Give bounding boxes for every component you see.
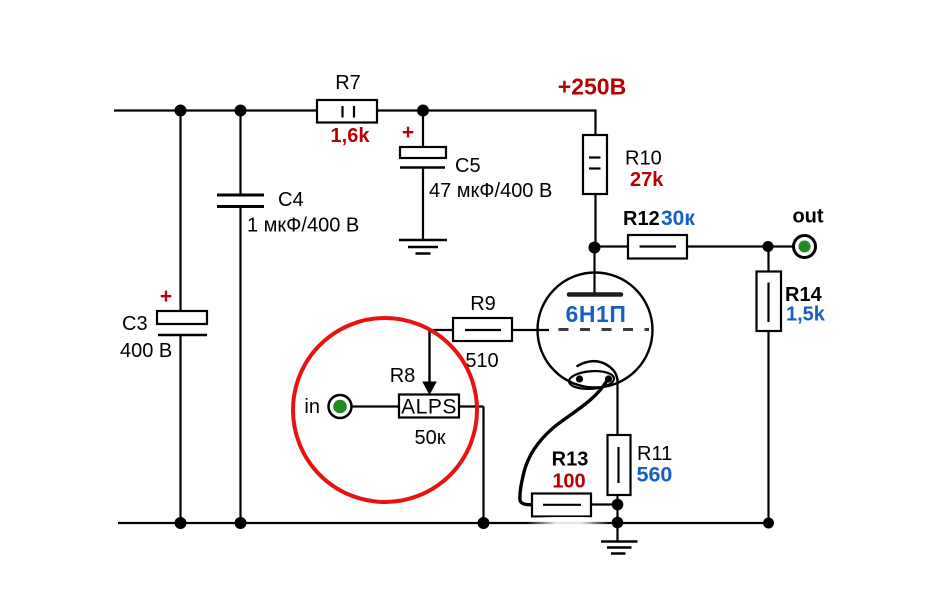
node junction dot C3 top [175,105,187,117]
svg-text:R13: R13 [552,449,589,471]
node out junction [763,241,774,252]
tube grid (dashed) [559,328,650,331]
wire C4 lower [239,207,241,524]
svg-text:510: 510 [465,350,498,372]
wiper arrowhead [422,382,437,396]
tube label 6Н1П [565,301,626,327]
wire top rail right segment [377,109,597,111]
wire bottom rail [118,522,771,524]
resistor R10 [583,135,664,194]
resistor R13 [532,449,591,517]
wire wiper arm [428,330,430,383]
node junction dot C4 bottom [235,517,247,529]
wire R10 top [594,111,596,136]
wire R12 left [595,245,629,247]
wire R9 left [430,329,454,331]
tube pin dot left [576,375,583,382]
svg-text:C3: C3 [122,313,148,335]
wire R14 bottom [767,331,769,523]
ground main [601,542,638,554]
svg-text:out: out [792,206,823,228]
net +250В [558,74,626,100]
node R14 ground junction [763,518,774,529]
tube pin dot right [605,375,612,382]
wire to out terminal [768,245,794,247]
wire R9 right [512,329,549,331]
svg-text:in: in [304,396,320,418]
node ALPS ground junction [478,517,490,529]
resistor R11 [608,435,673,495]
svg-text:+: + [160,285,172,308]
wire R10 bottom [594,194,596,248]
svg-text:R7: R7 [335,72,361,94]
svg-text:+250В: +250В [558,74,626,100]
svg-text:ALPS: ALPS [401,396,457,419]
resistor R9 [453,293,512,372]
terminal out [792,206,823,258]
wire R11 top [616,378,618,435]
svg-text:47 мкФ/400 В: 47 мкФ/400 В [429,180,552,202]
potentiometer R8 ALPS [390,365,459,449]
wire R11 bottom [616,495,618,505]
node anode junction [589,242,601,254]
highlight circle (red) [293,318,477,502]
whiteout smudge on bottom rail [526,517,611,528]
tube cathode loop [568,361,617,390]
wire C4 upper [239,111,241,196]
svg-text:R12: R12 [623,208,660,230]
wire C5 upper [422,111,424,148]
svg-text:6Н1П: 6Н1П [565,301,626,327]
node junction dot C3 bottom [175,517,187,529]
wire junction down [616,505,618,524]
wire top rail left segment [114,109,317,111]
wire ground stub [616,523,618,542]
wire ALPS right [459,405,484,407]
wire R14 top [767,247,769,272]
node junction dot C5 top [417,105,429,117]
svg-text:27k: 27k [630,169,664,191]
capacitor C3 [120,285,207,362]
capacitor C5 [400,121,552,202]
tube U1 6Н1П envelope [538,273,653,388]
svg-text:C4: C4 [278,189,304,211]
wire R13 to junction [591,503,618,505]
value 1,6k [331,125,371,147]
wire in to ALPS [352,405,400,407]
svg-text:50к: 50к [415,427,446,449]
svg-text:R10: R10 [625,148,662,170]
svg-text:1 мкФ/400 В: 1 мкФ/400 В [247,215,359,237]
tube anode plate [569,292,621,297]
node R13-R11 junction [612,499,624,511]
node bottom rail ground junction [612,517,624,529]
svg-text:1,5k: 1,5k [786,304,826,326]
svg-text:R8: R8 [390,365,416,387]
resistor R7 [317,72,377,123]
wire ALPS down [482,407,484,524]
wire C3 upper [179,111,181,312]
terminal in [304,395,351,418]
wire anode lead [593,248,595,294]
svg-text:+: + [402,121,414,144]
wire R12 right [687,245,768,247]
svg-text:560: 560 [637,463,673,487]
svg-text:400 В: 400 В [120,340,172,362]
svg-text:C5: C5 [455,155,481,177]
ground under C5 [399,240,447,254]
svg-text:30к: 30к [661,207,695,230]
svg-text:R9: R9 [470,293,496,315]
wire C5 lower [422,168,424,241]
resistor R14 [757,272,826,332]
wire C3 lower [179,335,181,523]
wire cathode tail to R13 [520,379,608,505]
resistor R12 [623,207,695,259]
svg-text:1,6k: 1,6k [331,125,371,147]
capacitor C4 [217,189,359,237]
svg-text:100: 100 [552,471,585,493]
node junction dot C4 top [235,105,247,117]
